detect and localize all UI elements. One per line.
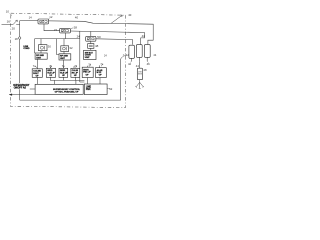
W1 exit arrow 40 [111, 15, 122, 23]
line conditioner label [23, 46, 30, 50]
drop to M1 [33, 39, 35, 53]
svg-text:UNIT: UNIT [36, 57, 42, 59]
label 54 [123, 53, 127, 57]
converter box 34 [35, 53, 47, 59]
glyph in box 12 [40, 20, 47, 22]
feeds into supervisory box [38, 77, 76, 84]
label 30 [48, 45, 52, 49]
rectifier box 26 [60, 28, 71, 33]
svg-text:PBX: PBX [86, 89, 91, 91]
label 50 [97, 35, 101, 39]
SB to BB drops [41, 51, 64, 54]
labels above middle row [33, 62, 104, 68]
small box 48 [88, 44, 94, 49]
leader 28 [71, 28, 74, 29]
svg-text:ON/OFF AS: ON/OFF AS [14, 87, 27, 90]
dash-dot enclosure 10 [10, 13, 125, 107]
label 16 [7, 20, 11, 24]
svg-text:52: 52 [109, 87, 113, 91]
box48-BB3 link [90, 48, 92, 50]
label 48 [95, 44, 99, 48]
label 20 [12, 27, 16, 31]
bottom bus under modules [50, 77, 75, 80]
sensor box 32 [61, 46, 69, 52]
switch box 50 [86, 36, 96, 41]
bypass drop [19, 89, 21, 100]
svg-text:48: 48 [95, 44, 99, 48]
svg-text:UNIT: UNIT [85, 57, 91, 59]
svg-text:UNIT: UNIT [60, 58, 66, 60]
bus W2 [35, 38, 80, 40]
svg-text:44: 44 [142, 34, 146, 38]
battery 46 [144, 45, 150, 58]
svg-text:12: 12 [49, 15, 53, 19]
crow foot [135, 80, 144, 89]
charger box [84, 50, 96, 59]
feeds SB from bus [41, 39, 64, 55]
feed into box 50 [90, 32, 92, 37]
box 52 [84, 84, 107, 95]
svg-text:24: 24 [77, 34, 81, 38]
label 10 [6, 10, 10, 14]
converter box 36 [59, 54, 71, 60]
side labels 42/44 [126, 53, 157, 57]
bypass label [13, 85, 30, 90]
label 24 [77, 34, 81, 38]
leader 52 [107, 87, 109, 90]
label 40b [75, 15, 79, 19]
svg-text:32: 32 [69, 46, 73, 50]
svg-text:10: 10 [6, 10, 10, 14]
label 44 wire tick [142, 34, 146, 38]
sensor box 30 [39, 45, 48, 51]
label 18 [15, 37, 19, 41]
module box M4 [71, 68, 80, 77]
riser to W1 [19, 21, 21, 25]
svg-text:46: 46 [147, 62, 151, 66]
wire box50 to battery 1 [96, 39, 133, 45]
module box M6 [96, 68, 107, 78]
label 12 [49, 15, 53, 19]
battery 42 [129, 45, 135, 58]
box26 output drop [64, 33, 66, 39]
label 32 [69, 46, 73, 50]
module box M2 [46, 68, 55, 77]
svg-text:40: 40 [75, 15, 79, 19]
switch box 12 [38, 19, 49, 24]
charge monitor [137, 68, 142, 79]
label 22 [54, 28, 58, 32]
wire box26 to battery 2 [70, 31, 144, 45]
glyph 30 [40, 46, 43, 49]
svg-text:18: 18 [15, 37, 19, 41]
CT circle 18 [19, 24, 21, 83]
wire W1 [20, 21, 111, 24]
label 42 [128, 62, 132, 66]
label 52 [109, 87, 113, 91]
svg-text:16: 16 [7, 20, 11, 24]
input wire [2, 23, 20, 25]
glyph 32 [63, 47, 66, 50]
label 14 [29, 16, 33, 20]
breaker 16 [13, 20, 17, 24]
module box M5 [82, 67, 93, 77]
arrow line A1 [9, 94, 35, 96]
svg-text:44: 44 [136, 64, 140, 68]
wire to battery 3 [111, 23, 153, 44]
module box M3 [59, 68, 68, 77]
label ticks M row [35, 64, 102, 68]
svg-text:40: 40 [128, 13, 132, 17]
label 28 [74, 25, 78, 29]
glyph 50 [87, 38, 94, 40]
charge monitor feed [138, 61, 140, 68]
feeds into box 52 [88, 78, 100, 85]
svg-text:PBX JF: PBX JF [83, 72, 91, 74]
right riser [120, 59, 122, 100]
tick 54 [121, 57, 123, 59]
return line A2 [20, 99, 121, 101]
glyph in box 26 [61, 29, 68, 31]
battery stems [132, 57, 148, 61]
svg-text:50: 50 [97, 35, 101, 39]
leader 12 [48, 18, 51, 19]
drop right of bus [79, 31, 81, 82]
battery 44 [136, 45, 142, 58]
label 44b [136, 64, 140, 68]
svg-text:20: 20 [12, 27, 16, 31]
label 48b [143, 68, 147, 72]
svg-text:COND: COND [23, 48, 30, 50]
svg-text:42: 42 [128, 62, 132, 66]
stubs above middle row [38, 59, 100, 69]
svg-text:28: 28 [74, 25, 78, 29]
label 40 [128, 13, 132, 17]
supervisory control box [35, 84, 83, 94]
module box M1 [32, 69, 42, 78]
label 46 [147, 62, 151, 66]
svg-text:48: 48 [143, 68, 147, 72]
svg-text:30: 30 [48, 45, 52, 49]
svg-text:14: 14 [29, 16, 33, 20]
box50-box48 link [90, 41, 92, 43]
label 24f [104, 55, 107, 58]
leader 10 [10, 14, 12, 16]
node drop from W1 [44, 21, 60, 31]
svg-text:22: 22 [54, 28, 58, 32]
svg-text:OF VDC, FDB/CMD, UF: OF VDC, FDB/CMD, UF [55, 91, 79, 93]
svg-text:SUPERVISORY: SUPERVISORY [13, 85, 30, 87]
